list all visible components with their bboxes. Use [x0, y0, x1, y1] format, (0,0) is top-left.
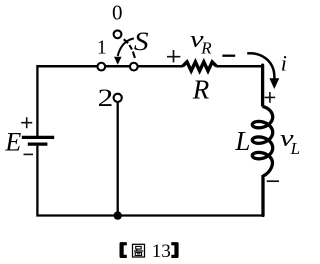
junction node dot: [114, 211, 122, 219]
resistor minus sign: [222, 55, 235, 57]
right wire with inductor L coil: [252, 65, 272, 215]
resistor R zigzag: [183, 62, 217, 71]
switch motion arc: [118, 38, 134, 56]
inductor minus sign: [267, 180, 279, 182]
battery minus sign: [24, 153, 34, 155]
current arrow i: [247, 53, 274, 78]
top wire with resistor R zigzag: [37, 65, 262, 68]
wire from switch terminal 2 down to junction: [117, 103, 119, 216]
switch blade dashed arc (3 dashes): [124, 39, 135, 58]
svg-text:E: E: [4, 127, 21, 156]
svg-text:1: 1: [97, 38, 107, 59]
caption left lenticular bracket: [120, 242, 127, 258]
svg-text:13: 13: [152, 241, 171, 262]
switch contact circle right pivot: [130, 63, 138, 71]
switch arrowhead: [114, 57, 122, 65]
left wire and bottom wire: [37, 65, 262, 216]
svg-text:S: S: [134, 27, 149, 56]
svg-text:2: 2: [98, 85, 114, 112]
battery E short plate: [28, 143, 48, 146]
svg-text:R: R: [200, 39, 212, 58]
battery plus sign: [21, 117, 32, 128]
switch contact circle terminal 1: [97, 63, 105, 71]
svg-text:i: i: [281, 50, 287, 75]
inductor plus sign: [265, 92, 276, 103]
battery E long plate: [22, 136, 54, 139]
svg-text:R: R: [192, 75, 210, 105]
svg-text:0: 0: [112, 0, 123, 24]
switch terminal circle 0: [114, 30, 122, 38]
caption right lenticular bracket: [171, 242, 178, 258]
switch terminal circle 2: [114, 94, 122, 102]
resistor plus sign: [167, 50, 180, 62]
svg-text:L: L: [234, 126, 250, 156]
caption hanzi tu (figure): [133, 244, 145, 257]
svg-text:L: L: [290, 139, 300, 158]
